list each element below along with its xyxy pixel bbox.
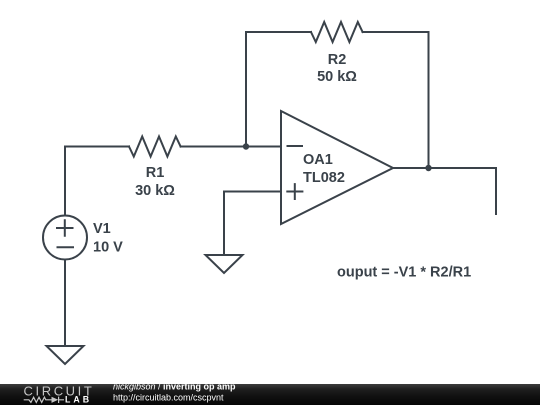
footer bar	[0, 384, 540, 405]
op-amp minus symbol	[288, 145, 303, 147]
svg-text:30 kΩ: 30 kΩ	[135, 183, 175, 199]
V1 minus symbol	[58, 246, 74, 248]
wire output stub down	[495, 168, 497, 214]
wire op-amp non-inverting input to ground	[224, 192, 281, 256]
svg-text:LAB: LAB	[65, 394, 92, 404]
resistor R1	[129, 137, 181, 157]
svg-text:OA1: OA1	[303, 152, 333, 168]
svg-text:R1: R1	[146, 165, 165, 181]
CircuitLab logo squiggle wire	[24, 397, 52, 402]
voltage source V1	[43, 216, 87, 260]
svg-text:TL082: TL082	[303, 170, 345, 186]
wire R2 right and feedback right vertical to output	[363, 32, 429, 168]
op-amp plus symbol	[287, 184, 302, 199]
V1 plus symbol	[57, 220, 73, 235]
svg-text:V1: V1	[93, 221, 111, 237]
svg-text:ouput = -V1 * R2/R1: ouput = -V1 * R2/R1	[337, 265, 471, 281]
ground (V1)	[47, 346, 84, 364]
output node junction dot	[425, 165, 431, 171]
svg-text:10 V: 10 V	[93, 240, 123, 256]
wire V1 bottom to ground	[64, 260, 66, 347]
svg-text:R2: R2	[328, 52, 347, 68]
op-amp U1 triangle	[281, 111, 393, 224]
wire V1 top to R1 left	[65, 147, 129, 216]
svg-text:50 kΩ: 50 kΩ	[317, 69, 357, 85]
CircuitLab logo diode arrow	[52, 397, 59, 403]
wire output	[393, 167, 496, 169]
ground (non-inverting input)	[206, 255, 243, 273]
wire feedback left vertical and top to R2	[246, 32, 311, 147]
svg-text:http://circuitlab.com/cscpvnt: http://circuitlab.com/cscpvnt	[113, 392, 224, 402]
node A junction dot	[243, 143, 249, 149]
wire R1 right to op-amp inverting input	[181, 146, 281, 148]
svg-text:nickgibson / inverting op amp: nickgibson / inverting op amp	[113, 382, 236, 392]
resistor R2	[311, 22, 363, 42]
